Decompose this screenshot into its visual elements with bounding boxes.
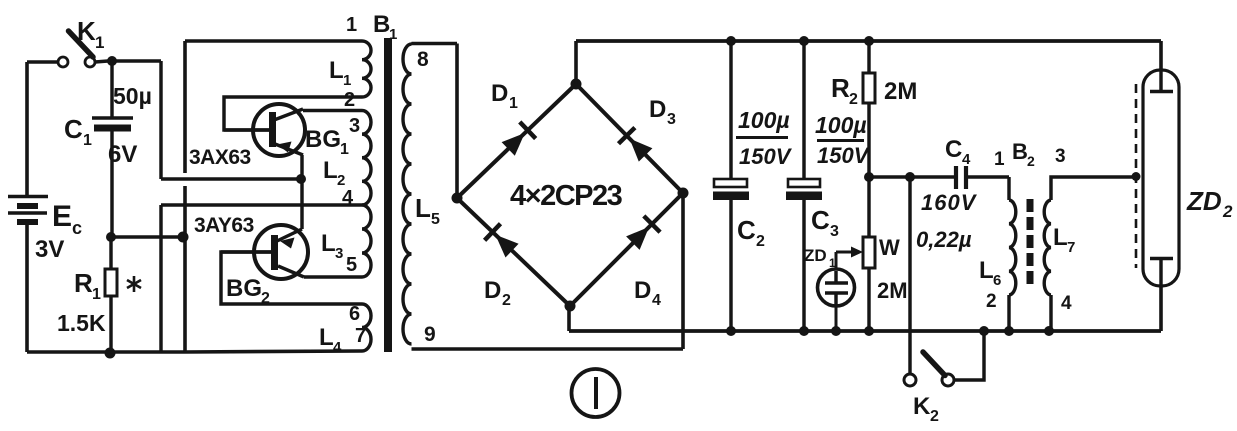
junction R2-W-C4 node (864, 172, 874, 182)
svg-text:8: 8 (417, 48, 429, 71)
svg-text:100µ: 100µ (738, 107, 790, 133)
svg-text:R: R (74, 268, 93, 298)
node R2 top (864, 36, 874, 46)
svg-text:6: 6 (993, 272, 1001, 289)
wire battery negative rail (27, 350, 185, 354)
svg-text:2: 2 (344, 89, 355, 111)
svg-text:4×2CP23: 4×2CP23 (510, 180, 623, 212)
wire K2 feed down (908, 177, 911, 374)
junction K2 tap node (905, 172, 915, 182)
wire K2 to negative rail (954, 331, 984, 380)
resistor R1 (109, 237, 112, 269)
svg-text:2: 2 (930, 408, 939, 425)
wire pin 3 to lamp (1051, 177, 1136, 200)
node bridge right (678, 188, 689, 199)
wire node to C1 (110, 61, 113, 117)
wire K1 feed down (159, 61, 162, 179)
svg-text:C: C (737, 215, 756, 245)
svg-text:3: 3 (349, 115, 360, 137)
svg-text:5: 5 (346, 254, 357, 276)
node bridge left (452, 193, 463, 204)
svg-text:0,22µ: 0,22µ (916, 227, 972, 252)
fluorescent lamp ZD2 tube (1143, 70, 1179, 286)
winding L2 (362, 110, 371, 204)
indicator lamp symbol circled 1 (572, 369, 620, 417)
svg-text:4: 4 (1061, 293, 1072, 314)
wire H2 center tap pin 4 (161, 203, 362, 206)
wire C1 bottom to R1 node (110, 131, 113, 237)
wire oscillator block bottom edge pin 7 (185, 351, 362, 352)
winding L4 (362, 304, 371, 351)
svg-text:4: 4 (342, 187, 354, 209)
svg-text:3AX63: 3AX63 (189, 146, 251, 169)
wire bridge edge left-bottom (457, 198, 570, 306)
svg-text:2M: 2M (884, 78, 917, 105)
svg-text:D: D (649, 96, 666, 123)
winding L3 (362, 205, 371, 277)
wire BG1 collector to pin 3 (303, 109, 362, 112)
svg-text:R: R (831, 73, 850, 103)
svg-text:L: L (321, 230, 336, 257)
node K2 rail (979, 326, 989, 336)
svg-text:1: 1 (95, 33, 104, 52)
lamp top filament (1159, 70, 1162, 91)
svg-text:3: 3 (667, 111, 676, 128)
svg-text:3AY63: 3AY63 (194, 214, 254, 237)
diode D4 (626, 227, 649, 250)
svg-text:9: 9 (424, 323, 436, 346)
svg-text:4: 4 (333, 339, 342, 356)
node C3 bottom (799, 326, 809, 336)
svg-text:c: c (72, 218, 82, 238)
wire bridge top to positive rail (574, 41, 578, 84)
svg-text:ZD: ZD (1186, 186, 1222, 216)
node ZD1 bottom (831, 326, 841, 336)
node bridge bottom (565, 301, 576, 312)
svg-text:D: D (491, 80, 508, 107)
junction node R1 top (106, 232, 116, 242)
svg-text:L: L (1053, 224, 1068, 251)
svg-text:6: 6 (349, 303, 360, 325)
svg-text:1: 1 (343, 72, 351, 89)
svg-text:4: 4 (962, 151, 971, 168)
node pin 2 rail (1004, 326, 1014, 336)
wire bridge bottom to negative rail (567, 306, 571, 331)
svg-text:ZD: ZD (804, 246, 827, 265)
svg-text:L: L (329, 57, 344, 84)
wire positive top rail (576, 39, 1161, 43)
switch K1 (58, 57, 68, 67)
wire node R2 bottom to C4 (869, 175, 955, 178)
wire BG2 base hook to pin 6 (221, 252, 362, 304)
wire node to block edge (111, 235, 183, 238)
svg-text:2: 2 (502, 292, 511, 309)
capacitor C1 (92, 116, 133, 120)
node bridge top (571, 79, 582, 90)
svg-text:1.5K: 1.5K (57, 310, 106, 336)
wire emitter tie vertical (300, 155, 303, 229)
wire L5 bottom to bridge right (412, 347, 684, 351)
wire BG1 base hook to pin 2 (224, 97, 362, 130)
svg-text:2M: 2M (877, 278, 908, 303)
svg-text:E: E (52, 200, 72, 233)
svg-text:BG: BG (305, 126, 341, 153)
potentiometer W (867, 177, 870, 237)
svg-text:3V: 3V (35, 236, 64, 263)
svg-text:B: B (373, 11, 390, 38)
svg-text:150V: 150V (739, 144, 793, 169)
wire rail to lamp top (1159, 41, 1163, 70)
wire pin 2 drop (1007, 295, 1010, 331)
node W bottom (864, 326, 874, 336)
svg-text:C: C (811, 205, 830, 235)
svg-text:2: 2 (986, 291, 997, 312)
diode D2 (495, 235, 518, 258)
svg-text:2: 2 (756, 233, 765, 250)
potentiometer W wiper arrow (836, 251, 855, 254)
winding L5 (403, 44, 412, 344)
svg-text:50µ: 50µ (113, 83, 152, 109)
wire rail to lamp bottom (1159, 286, 1163, 331)
wire oscillator block left edge (183, 41, 187, 173)
svg-text:2: 2 (849, 91, 858, 108)
diode D3 (630, 139, 653, 162)
svg-text:C: C (945, 136, 962, 163)
winding L1 (362, 41, 371, 97)
wire switch to node (95, 61, 108, 62)
svg-text:160V: 160V (921, 190, 978, 215)
svg-text:D: D (634, 277, 651, 304)
svg-text:L: L (415, 193, 431, 223)
wire oscillator block top edge to pin 1 (185, 39, 362, 43)
junction node battery-plus (107, 56, 117, 66)
svg-text:2: 2 (1222, 202, 1233, 221)
wire battery top to switch K1 (27, 60, 58, 63)
lamp bottom filament (1150, 257, 1173, 261)
resistor R2 (867, 41, 870, 73)
svg-text:3: 3 (830, 223, 839, 240)
wire L5 top to bridge (412, 42, 458, 46)
wire center-tap return down (159, 205, 162, 352)
capacitor C2 (729, 41, 732, 180)
svg-text:1: 1 (509, 95, 518, 112)
svg-text:K: K (913, 393, 931, 420)
svg-text:5: 5 (431, 211, 440, 228)
battery Ec (25, 62, 29, 196)
wire BG2 collector to pin 5 (304, 275, 362, 278)
svg-text:D: D (484, 277, 501, 304)
winding L6 (1009, 200, 1016, 295)
svg-text:2: 2 (1027, 153, 1035, 169)
svg-text:W: W (879, 235, 900, 260)
svg-text:100µ: 100µ (815, 112, 867, 138)
svg-text:1: 1 (994, 149, 1005, 170)
junction on block edge (178, 232, 189, 243)
svg-text:7: 7 (1067, 239, 1075, 256)
capacitor C4 (954, 166, 958, 189)
transistor BG2 (254, 225, 308, 279)
svg-text:1: 1 (346, 14, 357, 36)
switch K2 (904, 374, 916, 386)
node C2 bottom (726, 326, 736, 336)
svg-text:7: 7 (355, 325, 366, 347)
winding L7 (1044, 200, 1051, 295)
neon lamp ZD1 (835, 252, 838, 269)
svg-text:1: 1 (83, 132, 92, 149)
svg-text:K: K (77, 16, 96, 46)
node lamp tap (1132, 172, 1141, 181)
node C3 top (799, 36, 809, 46)
svg-text:4: 4 (652, 292, 661, 309)
svg-text:L: L (323, 157, 338, 184)
svg-text:BG: BG (226, 275, 262, 302)
wire bridge edge bottom-right (570, 193, 683, 306)
svg-text:C: C (64, 114, 83, 144)
wire bridge edge top-right (576, 84, 683, 193)
capacitor C3 (802, 41, 805, 180)
junction R1 bottom (105, 348, 116, 359)
transformer B1 core (384, 38, 392, 352)
svg-text:L: L (319, 324, 334, 351)
junction emitter node (296, 174, 306, 184)
svg-text:3: 3 (335, 245, 343, 262)
svg-text:B: B (1012, 139, 1028, 164)
wire bridge edge left-top (457, 84, 576, 198)
transistor BG1 (253, 104, 305, 156)
node C2 top (726, 36, 736, 46)
svg-text:1: 1 (389, 26, 397, 43)
select-on-test star mark (133, 276, 136, 292)
diode D1 (502, 133, 525, 156)
svg-text:150V: 150V (817, 143, 871, 168)
svg-text:1: 1 (829, 256, 836, 270)
wire negative bottom rail (569, 329, 1161, 333)
svg-text:1: 1 (340, 141, 349, 158)
wire pin 1 drop (1007, 177, 1010, 200)
svg-text:L: L (979, 257, 994, 284)
svg-text:1: 1 (92, 286, 101, 303)
wire H1 emitter feed (161, 177, 301, 180)
lamp starting strip dashed (1135, 84, 1138, 268)
svg-text:3: 3 (1055, 146, 1066, 167)
wire pin 4 drop (1049, 295, 1052, 331)
node pin 4 rail (1044, 326, 1054, 336)
transformer B2 core (1027, 199, 1034, 212)
